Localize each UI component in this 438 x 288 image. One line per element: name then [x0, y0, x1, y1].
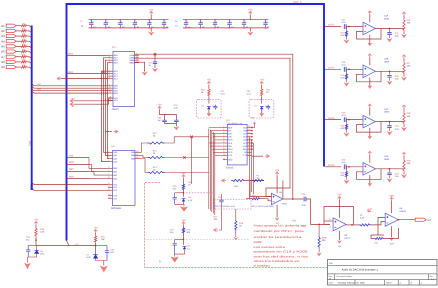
svg-text:VRE: VRE: [243, 129, 248, 132]
svg-text:R26: R26: [407, 19, 412, 22]
svg-text:20: 20: [136, 150, 138, 153]
wire dac pin stub: [215, 154, 223, 156]
svg-text:BIA: BIA: [243, 148, 247, 151]
svg-text:2.2K: 2.2K: [360, 217, 365, 220]
svg-text:+5V: +5V: [292, 220, 297, 223]
svg-text:3: 3: [108, 156, 109, 159]
svg-text:R7: R7: [22, 53, 26, 56]
wire to bus: [27, 46, 32, 48]
svg-text:.1u: .1u: [216, 25, 219, 28]
op-amp U1C: [363, 115, 376, 128]
svg-text:.1u: .1u: [165, 25, 168, 28]
svg-text:4: 4: [223, 134, 224, 137]
svg-text:+5V: +5V: [260, 79, 265, 82]
power -5V U1D: [369, 175, 371, 183]
power +48V U6: [390, 197, 393, 200]
svg-text:1K: 1K: [201, 91, 204, 94]
svg-text:1: 1: [421, 282, 423, 285]
ground R200: [317, 253, 322, 257]
svg-text:U1D: U1D: [384, 155, 389, 158]
svg-text:10: 10: [108, 185, 110, 188]
svg-text:C1: C1: [80, 20, 84, 23]
wire to bus: [27, 57, 32, 59]
op-amp U5: [333, 218, 346, 231]
capacitor C26 series: [304, 197, 306, 202]
svg-text:47K: 47K: [341, 34, 345, 37]
power flag R28: [402, 105, 405, 108]
svg-text:A2: A2: [1, 29, 5, 33]
wire row1 up to DAC: [165, 137, 209, 143]
svg-text:R4: R4: [22, 38, 26, 41]
svg-text:47K: 47K: [341, 174, 345, 177]
wire MCK: [67, 163, 90, 165]
svg-text:10: 10: [153, 169, 156, 172]
wire to bus: [27, 26, 32, 28]
wire frame end jog: [67, 241, 69, 246]
svg-text:C: C: [136, 20, 138, 23]
svg-text:IC1: IC1: [112, 46, 116, 49]
svg-text:C: C: [245, 20, 247, 23]
wire dac pin stub: [209, 127, 223, 129]
wire: [16, 40, 20, 42]
ground stage U1A: [344, 40, 350, 44]
capacitor C1: [90, 20, 92, 28]
svg-text:47u: 47u: [110, 251, 114, 254]
feedback wires U5: [324, 207, 354, 225]
diode D2D: [260, 105, 264, 107]
svg-text:C20: C20: [158, 117, 163, 120]
resistor R3: [21, 35, 28, 37]
svg-text:4.7u: 4.7u: [221, 93, 226, 96]
svg-text:10: 10: [153, 152, 156, 155]
svg-text:+5V: +5V: [93, 227, 98, 230]
svg-text:U2: U2: [112, 145, 116, 148]
ground C34: [387, 178, 393, 182]
svg-text:10: 10: [153, 135, 156, 138]
wire long net W1 from IC1 pin20: [135, 54, 293, 199]
svg-text:C30: C30: [342, 159, 347, 162]
svg-text:DB0: DB0: [113, 167, 118, 170]
svg-text:+5V: +5V: [34, 219, 39, 222]
svg-text:2.2n: 2.2n: [395, 128, 400, 131]
svg-text:NPC5842: NPC5842: [111, 207, 122, 210]
flag arrow right of DAC: [265, 155, 270, 158]
svg-text:VCC: VCC: [243, 142, 248, 145]
svg-text:GND: GND: [228, 159, 233, 162]
ground R27: [401, 77, 407, 81]
svg-text:10K: 10K: [407, 22, 411, 25]
svg-text:9: 9: [223, 150, 224, 153]
port symbol A2: [6, 29, 16, 32]
svg-text:4.7u: 4.7u: [174, 107, 179, 110]
resistor R4: [21, 40, 28, 42]
ground: [247, 32, 253, 36]
svg-text:R28: R28: [407, 112, 412, 115]
power +5V D1: [207, 82, 210, 85]
wire LED1 node to LED2: [36, 240, 96, 245]
op-amp U1B: [363, 65, 376, 78]
svg-text:VDD: VDD: [228, 151, 233, 154]
wire vcc: [75, 98, 114, 101]
svg-text:3: 3: [223, 131, 224, 134]
svg-text:+5V: +5V: [157, 104, 162, 107]
wire data3: [32, 91, 109, 93]
svg-text:4.7u: 4.7u: [342, 161, 347, 164]
ground capacitor bank 2: [249, 28, 251, 32]
svg-text:U1B: U1B: [384, 58, 389, 61]
capacitor C33 shunt: [389, 122, 391, 126]
resistor R13 row2: [139, 155, 148, 157]
svg-text:QA0: QA0: [113, 151, 118, 154]
net flag arrow mid: [105, 131, 112, 133]
svg-text:+5V: +5V: [251, 116, 255, 119]
resistor R24 to ground: [346, 120, 348, 124]
dashed label box stereo: [214, 200, 251, 210]
port symbol A1: [6, 24, 16, 27]
wire IC1 pin18 to ground: [135, 62, 145, 71]
svg-text:R2: R2: [22, 28, 26, 31]
IC U2 NPC5842: [113, 151, 136, 206]
svg-text:.1u: .1u: [231, 25, 234, 28]
wire DBT: [67, 170, 90, 172]
svg-text:VCC_5: VCC_5: [293, 1, 302, 4]
power +5V LED2: [94, 230, 97, 233]
ground stage U1D: [344, 180, 350, 184]
svg-text:U6: U6: [399, 207, 403, 210]
svg-text:A1: A1: [1, 24, 5, 28]
power +5V block B: [182, 222, 185, 225]
svg-text:10K: 10K: [101, 238, 105, 241]
svg-text:C24: C24: [170, 229, 175, 232]
svg-text:P2: P2: [360, 214, 363, 217]
svg-text:.1u: .1u: [93, 25, 96, 28]
svg-text:.1u: .1u: [245, 25, 248, 28]
port symbol A3: [6, 34, 16, 37]
svg-text:17: 17: [136, 60, 138, 63]
power flag R26: [402, 12, 405, 15]
svg-text:R14: R14: [153, 166, 158, 169]
ground zener B: [171, 257, 179, 263]
svg-text:Nota opamp U5 deberia ser: Nota opamp U5 deberia ser: [254, 223, 307, 227]
svg-text:A7: A7: [1, 55, 5, 59]
svg-text:2.2n: 2.2n: [395, 175, 400, 178]
capacitor C8: [214, 20, 216, 28]
wire dac pin stub: [212, 133, 223, 135]
svg-text:CK1: CK1: [113, 186, 118, 189]
svg-text:3.3n: 3.3n: [302, 204, 307, 207]
resistor R6: [21, 50, 28, 52]
power +5V capacitor bank 2: [249, 11, 252, 14]
resistor R16: [182, 227, 184, 233]
svg-text:Document Number: Document Number: [337, 275, 353, 278]
svg-text:5.1: 5.1: [187, 247, 191, 250]
svg-text:QA1: QA1: [113, 154, 118, 157]
svg-text:C32: C32: [110, 249, 115, 252]
svg-text:S1K: S1K: [69, 154, 74, 157]
power -5V U5: [338, 231, 340, 240]
wire S1K: [67, 157, 90, 159]
wire cap pair top: [165, 115, 177, 117]
wire data1: [32, 86, 109, 88]
svg-text:2.2u: 2.2u: [395, 35, 400, 38]
power +5V LED1: [34, 222, 37, 225]
wire: [16, 66, 20, 68]
resistor R23 to ground: [346, 69, 348, 73]
capacitor C11: [265, 20, 267, 28]
wire: [346, 119, 363, 121]
svg-text:2BB: 2BB: [131, 154, 135, 157]
svg-text:C34: C34: [395, 172, 400, 175]
wire dac pin stub: [210, 145, 223, 147]
svg-text:A5: A5: [1, 44, 5, 48]
wire y78: [62, 78, 109, 80]
svg-text:R23: R23: [341, 74, 346, 77]
capacitor C7: [200, 20, 202, 28]
wire: [16, 56, 20, 58]
port symbol A7: [6, 55, 16, 58]
svg-text:son los del diseno, o los: son los del diseno, o los: [254, 254, 310, 258]
svg-text:BCK: BCK: [228, 126, 233, 129]
dashed inner line: [145, 238, 251, 240]
op-amp U4A: [271, 193, 283, 205]
svg-text:47u: 47u: [173, 188, 177, 191]
resistor R22 to ground: [346, 27, 348, 31]
capacitor C31 shunt: [389, 29, 391, 33]
svg-text:C33: C33: [395, 125, 400, 128]
svg-text:-5V: -5V: [71, 105, 75, 108]
svg-text:el prototipo: el prototipo: [254, 263, 271, 267]
port symbol A6: [6, 50, 16, 53]
svg-text:CK2: CK2: [113, 189, 118, 192]
svg-text:R200: R200: [322, 237, 328, 240]
svg-text:1M: 1M: [257, 177, 260, 180]
svg-text:AD811: AD811: [399, 210, 406, 213]
svg-text:+5V: +5V: [181, 172, 186, 175]
svg-text:BCK: BCK: [69, 175, 74, 178]
svg-text:C: C: [150, 20, 152, 23]
wire: [16, 61, 20, 63]
ground R26: [401, 34, 407, 38]
svg-text:10K: 10K: [187, 231, 191, 234]
svg-text:R24: R24: [341, 124, 346, 127]
svg-text:SCK: SCK: [228, 142, 233, 145]
op-amp U4 inputs: [246, 198, 251, 200]
power +5V U1B: [368, 54, 371, 57]
capacitor bank 2: [183, 19, 269, 21]
DAC U3 TDA1543: [227, 124, 247, 164]
wire joins to IC2 upper pins: [89, 158, 108, 169]
svg-text:A9: A9: [1, 65, 5, 69]
wire: [16, 45, 20, 47]
power flag left y78: [57, 77, 62, 80]
ground C33: [387, 131, 393, 135]
svg-text:evitar la resistencia: evitar la resistencia: [254, 235, 303, 239]
wire: [16, 51, 20, 53]
wire long net W2 from IC1 pin19: [135, 58, 291, 196]
svg-text:-48V: -48V: [389, 242, 394, 245]
wire dac pin stub: [213, 136, 223, 138]
svg-text:Tuesday, February 26, 2002: Tuesday, February 26, 2002: [338, 282, 366, 285]
vertical wire mid link: [191, 137, 193, 184]
svg-text:5: 5: [108, 166, 109, 169]
svg-text:QA2: QA2: [113, 157, 118, 160]
svg-text:1: 1: [223, 125, 224, 128]
svg-text:A6: A6: [1, 50, 5, 54]
capacitor C30 series: [344, 164, 346, 169]
svg-text:18: 18: [136, 156, 138, 159]
svg-text:R11: R11: [266, 88, 271, 91]
svg-text:MCK: MCK: [228, 139, 233, 142]
bus bottom entries: [31, 184, 33, 190]
svg-text:C17: C17: [149, 62, 154, 65]
svg-text:19: 19: [248, 128, 250, 131]
wire to bus: [27, 31, 32, 33]
feedback wires U6 with resistor: [378, 218, 385, 236]
power +5V U1A: [368, 11, 371, 14]
svg-text:C: C: [92, 20, 94, 23]
flag below C4: [214, 228, 219, 231]
svg-text:cambiado por OP27, para: cambiado por OP27, para: [254, 229, 305, 233]
svg-text:-5V: -5V: [338, 245, 342, 248]
zener D4: [182, 198, 186, 200]
wire MD4: [67, 54, 109, 56]
svg-text:20: 20: [248, 125, 250, 128]
svg-text:R200: R200: [254, 240, 263, 244]
resistor R20 input: [251, 198, 261, 200]
power +5V U1D: [368, 151, 371, 154]
capacitor C29 series: [344, 117, 346, 122]
svg-text:R29: R29: [407, 159, 412, 162]
svg-text:10K: 10K: [407, 65, 411, 68]
capacitor D2C: [266, 105, 270, 110]
svg-text:R13: R13: [153, 150, 158, 153]
svg-text:A4: A4: [1, 39, 5, 43]
wire bundle IC1 to IC2: [103, 58, 108, 153]
net flag right of DAC: [252, 155, 263, 157]
svg-text:C27: C27: [342, 18, 347, 21]
svg-text:C: C: [267, 20, 269, 23]
svg-text:A8: A8: [1, 60, 5, 64]
capacitor C28 series: [344, 67, 346, 72]
ground C17: [152, 68, 158, 72]
svg-text:1n: 1n: [149, 64, 152, 67]
svg-text:C: C: [165, 20, 167, 23]
op-amp U5 output and pot: [346, 224, 359, 226]
resistor R21 feedback: [374, 237, 384, 239]
svg-text:DIN: DIN: [228, 145, 232, 148]
svg-text:OP (4 recommended): OP (4 recommended): [252, 205, 274, 208]
svg-text:U044: U044: [384, 18, 390, 21]
resistor R18: [235, 209, 237, 220]
bus entry wires to IC2: [32, 182, 108, 184]
wire cap pair bottom: [165, 124, 177, 127]
svg-text:8: 8: [223, 147, 224, 150]
svg-text:MCK: MCK: [69, 161, 75, 164]
svg-text:R18: R18: [239, 222, 244, 225]
dashed line from zener A junction: [186, 192, 214, 194]
svg-text:+48V: +48V: [389, 194, 395, 197]
capacitor C23 branch: [175, 192, 184, 194]
svg-text:DB3: DB3: [113, 177, 118, 180]
feedback loop U1C: [357, 122, 382, 133]
svg-text:+5V: +5V: [207, 79, 212, 82]
wire: [346, 68, 363, 70]
svg-text:R25: R25: [341, 172, 346, 175]
svg-text:11: 11: [108, 188, 110, 191]
resistor R31: [94, 235, 96, 243]
flag arrow right mid: [114, 130, 119, 133]
power +5V U1C: [368, 104, 371, 107]
ground LED2: [100, 266, 108, 273]
svg-text:+5V: +5V: [275, 169, 280, 172]
svg-text:C6: C6: [175, 20, 179, 23]
capacitor C19: [164, 117, 166, 124]
svg-text:D7: D7: [87, 254, 90, 257]
power +5V C19: [158, 107, 161, 110]
ground C31: [387, 38, 393, 42]
svg-text:Title: Title: [329, 262, 334, 265]
power flag R29: [402, 152, 405, 155]
svg-text:+5V: +5V: [149, 9, 154, 12]
svg-text:OP27: OP27: [344, 237, 350, 240]
svg-text:C23: C23: [173, 185, 178, 188]
svg-text:R8: R8: [22, 59, 26, 62]
power +5V U4: [276, 172, 279, 175]
svg-text:DOU: DOU: [228, 148, 233, 151]
svg-text:47u: 47u: [26, 239, 30, 242]
wire dac pin stub: [212, 148, 223, 150]
svg-text:+5V: +5V: [248, 9, 253, 12]
svg-text:R17: R17: [214, 216, 219, 219]
junction X bundle: [102, 71, 105, 74]
svg-text:AGN: AGN: [243, 136, 248, 139]
feedback wires U4: [282, 181, 284, 200]
svg-text:OP27: OP27: [282, 202, 288, 205]
svg-text:2.2n: 2.2n: [395, 78, 400, 81]
svg-text:R3: R3: [22, 33, 26, 36]
capacitor C34 shunt: [389, 169, 391, 173]
op-amp U4 output net: [283, 198, 303, 200]
svg-text:D5: D5: [187, 245, 190, 248]
svg-text:C: C: [202, 20, 204, 23]
svg-text:R12: R12: [153, 132, 158, 135]
wire data2: [32, 89, 109, 91]
capacitor C6: [185, 20, 187, 28]
svg-text:R5: R5: [22, 43, 26, 46]
resistor R1: [21, 25, 28, 27]
svg-text:.1u: .1u: [107, 25, 110, 28]
svg-text:U5: U5: [344, 234, 348, 237]
wire to bus: [27, 62, 32, 64]
power -5V U4: [276, 205, 278, 218]
svg-text:LRC: LRC: [228, 136, 233, 139]
wire: [16, 30, 20, 32]
svg-text:C: C: [107, 20, 109, 23]
wire to bus: [27, 52, 32, 54]
feedback loop U1A: [357, 29, 382, 40]
svg-text:R16: R16: [187, 229, 192, 232]
power -5V U1A: [369, 35, 371, 43]
wire to U5: [306, 199, 330, 224]
svg-text:CLK: CLK: [29, 141, 32, 146]
svg-text:3: 3: [330, 225, 332, 228]
svg-text:47K: 47K: [341, 127, 345, 130]
ground LED1: [24, 263, 31, 270]
ground IC1 pin18: [142, 72, 148, 76]
svg-text:.1u: .1u: [175, 24, 179, 27]
svg-text:R15: R15: [188, 181, 193, 184]
power +5V capacitor bank 1: [150, 11, 153, 14]
